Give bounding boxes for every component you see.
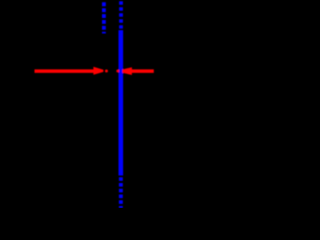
red dot 1 xyxy=(105,70,108,73)
dotted blue line above wall xyxy=(119,1,123,28)
right red arrow shaft xyxy=(132,69,154,73)
left red arrow head xyxy=(93,67,103,75)
left red arrow shaft xyxy=(35,69,95,73)
solid blue wall xyxy=(119,30,124,175)
right red arrow head xyxy=(122,67,132,75)
red dot 2 xyxy=(116,70,119,73)
dotted blue line left (ghost trajectory at x~104) xyxy=(102,2,106,33)
dotted blue line below wall xyxy=(119,177,123,208)
